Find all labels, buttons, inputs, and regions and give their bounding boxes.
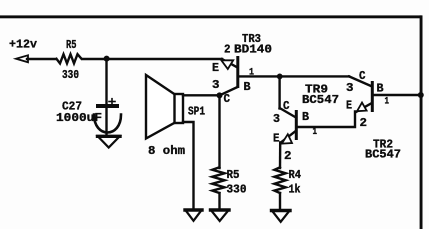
svg-text:B: B xyxy=(302,110,309,124)
svg-text:B: B xyxy=(244,80,251,94)
node junction TR9 collector on base wire xyxy=(277,74,283,80)
ground below R4 xyxy=(272,211,291,222)
svg-text:3: 3 xyxy=(346,81,354,95)
wire R5 to ground xyxy=(218,193,220,211)
svg-text:330: 330 xyxy=(227,183,247,197)
svg-text:B: B xyxy=(377,82,384,96)
transistor TR3 BD140 (PNP) xyxy=(212,32,272,106)
wire R5 to TR3 emitter xyxy=(83,58,222,60)
svg-text:C: C xyxy=(283,99,290,113)
speaker SP1 8 ohm xyxy=(146,75,205,158)
node +12v supply terminal xyxy=(9,38,37,63)
svg-text:1k: 1k xyxy=(289,183,301,197)
svg-text:2: 2 xyxy=(284,149,292,163)
svg-text:R4: R4 xyxy=(289,168,302,182)
svg-text:SP1: SP1 xyxy=(188,105,205,119)
svg-text:330: 330 xyxy=(62,68,79,82)
node junction TR3 collector / speaker / R5 xyxy=(217,92,223,98)
svg-text:1: 1 xyxy=(385,97,390,108)
wire speaker top terminal to junction xyxy=(183,94,220,96)
svg-text:C: C xyxy=(224,92,231,106)
wire TR2 base to right rail xyxy=(374,94,420,96)
svg-text:R5: R5 xyxy=(66,38,77,52)
transistor TR9 BC547 (NPN) xyxy=(273,76,339,163)
wire speaker bottom terminal to ground xyxy=(183,122,194,211)
capacitor C27 1000uF xyxy=(56,99,121,136)
svg-text:C: C xyxy=(359,69,366,83)
wire +12v terminal to R5 xyxy=(27,58,56,60)
node junction TR2 base / right rail xyxy=(418,92,424,98)
svg-text:R5: R5 xyxy=(227,168,240,182)
wire junction down to R5 xyxy=(218,95,220,168)
svg-text:8 ohm: 8 ohm xyxy=(148,144,185,158)
svg-text:3: 3 xyxy=(273,112,280,126)
svg-text:1: 1 xyxy=(313,127,318,138)
ground below R5 xyxy=(211,210,230,221)
ground below speaker xyxy=(185,210,202,221)
svg-text:E: E xyxy=(346,99,352,113)
wire junction down to C27 xyxy=(105,59,107,105)
svg-text:2: 2 xyxy=(360,116,368,130)
svg-text:1000uF: 1000uF xyxy=(56,111,102,125)
transistor TR2 BC547 (NPN) xyxy=(346,69,401,162)
svg-text:BC547: BC547 xyxy=(365,148,401,162)
svg-text:2: 2 xyxy=(224,43,231,57)
wire right rail xyxy=(420,15,423,229)
resistor R5 330 (vertical) xyxy=(212,167,246,196)
svg-text:E: E xyxy=(212,61,219,75)
wire TR9 emitter down to R4 xyxy=(279,143,282,169)
svg-text:+12v: +12v xyxy=(9,38,37,52)
wire TR3 base to TR2 collector xyxy=(239,75,349,77)
resistor R5 330 (horizontal) xyxy=(57,38,82,82)
wire top rail xyxy=(0,15,422,18)
resistor R4 1k xyxy=(274,167,301,196)
wire R4 to ground xyxy=(279,193,281,211)
svg-text:E: E xyxy=(273,132,280,146)
ground below C27 xyxy=(98,136,121,147)
svg-text:3: 3 xyxy=(212,78,220,92)
node junction R5 / C27 xyxy=(104,56,110,62)
svg-text:BC547: BC547 xyxy=(302,93,339,107)
wire TR9 base to TR2 emitter xyxy=(298,112,355,128)
svg-text:BD140: BD140 xyxy=(234,43,272,57)
